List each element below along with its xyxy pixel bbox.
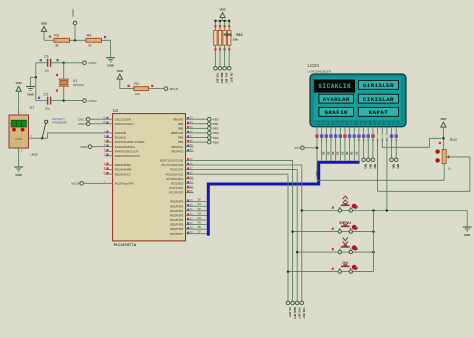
svg-text:U1: U1 bbox=[30, 106, 35, 110]
node OSC2 junction bbox=[62, 99, 64, 102]
wire RD0 to bus, net D0 bbox=[194, 201, 207, 203]
svg-text:RB0: RB0 bbox=[396, 164, 398, 169]
LCD pin 8 stub bbox=[349, 127, 351, 161]
wire RV2 bottom bbox=[443, 164, 445, 181]
node up/col4 bbox=[301, 209, 304, 212]
wire LCD pin1 net to RV2 bottom bbox=[317, 179, 444, 181]
svg-text:RD7/PSP7: RD7/PSP7 bbox=[170, 232, 184, 236]
terminal OSC1 (chip) bbox=[86, 117, 90, 121]
svg-text:RB1: RB1 bbox=[213, 122, 219, 126]
svg-text:RB6/PGC: RB6/PGC bbox=[171, 145, 183, 149]
svg-text:RW: RW bbox=[345, 121, 347, 124]
wire RC0 to button column 2 bbox=[194, 160, 293, 301]
svg-text:R1: R1 bbox=[134, 81, 139, 86]
svg-text:10k: 10k bbox=[135, 92, 140, 96]
voltage probe U1(VOUT) bbox=[42, 124, 45, 138]
svg-text:V=0.852649: V=0.852649 bbox=[52, 121, 67, 125]
svg-text:RB4: RB4 bbox=[213, 136, 219, 140]
pin 22 RD3/PSP3 bbox=[186, 214, 194, 216]
wire buttons common bbox=[373, 211, 375, 272]
pin 36 RB3/PGM bbox=[186, 132, 194, 134]
svg-text:VDD: VDD bbox=[16, 81, 22, 85]
wire RST to LCD pin1 bbox=[304, 147, 317, 149]
svg-text:LGM12641BS1R: LGM12641BS1R bbox=[308, 69, 332, 73]
terminal OSC2 (chip) bbox=[86, 122, 90, 126]
LCD menu item AYARLAR bbox=[319, 94, 354, 103]
pin 10 RE2/AN7/CS bbox=[105, 173, 113, 175]
svg-text:RA3/AN3/VREF+: RA3/AN3/VREF+ bbox=[115, 145, 136, 149]
svg-text:R10: R10 bbox=[236, 33, 242, 37]
svg-text:RB0/INT: RB0/INT bbox=[173, 117, 184, 121]
svg-text:OK_BUT: OK_BUT bbox=[288, 307, 291, 317]
svg-text:RC5/SDO: RC5/SDO bbox=[171, 181, 183, 185]
svg-text:3k: 3k bbox=[55, 43, 59, 47]
wire down-button row bbox=[297, 251, 338, 253]
pin 26 RC7/RX/DT bbox=[186, 191, 194, 193]
pin 16 RC1/T1OSI/CCP2 bbox=[186, 164, 194, 166]
wire caps common bbox=[35, 63, 37, 101]
pin 9 RE1/AN6/WR bbox=[105, 169, 113, 171]
svg-text:YUK_BUT: YUK_BUT bbox=[302, 307, 305, 319]
terminal RB2 (LCD control) bbox=[371, 158, 375, 162]
pin 25 RC6/TX/CK bbox=[186, 187, 194, 189]
svg-text:MCLR: MCLR bbox=[71, 182, 79, 186]
wire RD6 to bus, net D6 bbox=[194, 228, 207, 230]
wire RD3 to bus, net D3 bbox=[194, 214, 207, 216]
resistor R4 bbox=[86, 38, 102, 42]
pin 6 RA4/T0CKI/C1OUT bbox=[105, 150, 113, 152]
resistor R6 (pull-up) bbox=[219, 21, 221, 31]
svg-text:RA4/T0CKI/C1OUT: RA4/T0CKI/C1OUT bbox=[115, 149, 139, 153]
terminal OK_BUT (bottom) bbox=[286, 301, 290, 305]
bus (data D0-D7 to LCD) bbox=[208, 162, 359, 235]
terminal ASG_BUT (bottom) bbox=[295, 301, 299, 305]
node VOUT junction bbox=[41, 137, 44, 140]
svg-text:RA5/AN4/SS/C2OUT: RA5/AN4/SS/C2OUT bbox=[115, 154, 141, 158]
LCD pin 1 stub bbox=[316, 127, 318, 181]
LCD menu item GiRiSLER bbox=[358, 80, 398, 89]
svg-text:VREF: VREF bbox=[80, 145, 88, 149]
wire VDD to R3 node bbox=[43, 31, 45, 40]
terminal MEN_BUT (top) bbox=[218, 67, 222, 71]
wire VREF bbox=[92, 146, 105, 148]
svg-text:U1(VOUT): U1(VOUT) bbox=[52, 117, 65, 121]
LCD pin 17 stub bbox=[391, 127, 393, 158]
svg-text:OK: OK bbox=[342, 260, 348, 265]
wire OK row bbox=[288, 271, 338, 273]
LCD pin 18 stub bbox=[395, 127, 397, 158]
wire OSC1 bbox=[90, 118, 105, 120]
ground (buttons) bbox=[463, 226, 472, 228]
ground (LM35) bbox=[14, 166, 23, 168]
pin 15 RC0/T1OSO/T1CKI bbox=[186, 159, 194, 161]
pin 5 RA3/AN3/VREF+ bbox=[105, 146, 113, 148]
svg-text:OK_BUT: OK_BUT bbox=[229, 73, 231, 83]
svg-text:X1: X1 bbox=[73, 79, 78, 83]
svg-text:VDD: VDD bbox=[41, 21, 47, 25]
pin 34 RB1 bbox=[186, 123, 194, 125]
svg-text:RB2: RB2 bbox=[178, 126, 184, 130]
wire VDD to R1 bbox=[120, 79, 134, 89]
wire VDD to U1 pin1 bbox=[18, 91, 20, 115]
svg-text:OSC1: OSC1 bbox=[88, 61, 97, 65]
ground (crystal caps) bbox=[26, 86, 35, 88]
svg-text:VDD: VDD bbox=[219, 7, 225, 11]
wire R1 to MCLR terminal bbox=[149, 88, 164, 90]
terminal VREF (chip) bbox=[88, 145, 92, 149]
svg-text:GiRiSLER: GiRiSLER bbox=[363, 82, 394, 89]
wire OSC2 bbox=[90, 123, 105, 125]
LCD pin 5 stub bbox=[335, 127, 337, 161]
pin 29 RD6/PSP6 bbox=[186, 228, 194, 230]
wire RD2 to bus, net D2 bbox=[194, 210, 207, 212]
svg-text:RD1/PSP1: RD1/PSP1 bbox=[170, 204, 184, 208]
svg-text:RD6/PSP6: RD6/PSP6 bbox=[170, 227, 184, 231]
svg-text:VDD: VDD bbox=[117, 69, 123, 73]
node menu/col2 bbox=[291, 230, 294, 233]
svg-text:MCLR: MCLR bbox=[170, 87, 180, 91]
svg-text:RC4/SDI/SDA: RC4/SDI/SDA bbox=[166, 177, 183, 181]
blue pin marker R4 right bbox=[104, 36, 106, 38]
wire LCD pin14 V0 to RV2 top bbox=[377, 139, 379, 147]
node up/common bbox=[372, 209, 375, 212]
svg-text:RB1: RB1 bbox=[178, 122, 184, 126]
svg-text:RB4: RB4 bbox=[368, 164, 371, 169]
LCD menu item CIKISLAR bbox=[358, 94, 398, 103]
svg-text:SICAKLIK: SICAKLIK bbox=[318, 83, 351, 90]
svg-text:RST: RST bbox=[294, 146, 300, 150]
LCD pin 2 stub bbox=[321, 127, 323, 161]
node up/LCD16 bbox=[386, 209, 389, 212]
terminal RB3 bbox=[194, 132, 208, 134]
pin 39 RB6/PGC bbox=[186, 146, 194, 148]
LCD pin 15 stub bbox=[381, 127, 383, 148]
resistor R7 (pull-up) bbox=[224, 21, 226, 31]
pin 14 OSC2/CLKOUT bbox=[105, 123, 113, 125]
terminal OSC1 bbox=[83, 61, 87, 65]
svg-text:YUK_BUT: YUK_BUT bbox=[216, 73, 218, 84]
svg-text:VDD: VDD bbox=[440, 117, 446, 121]
LCD pin 6 stub bbox=[339, 127, 341, 161]
LCD pin 9 stub bbox=[353, 127, 355, 161]
svg-text:RD2/PSP2: RD2/PSP2 bbox=[170, 209, 184, 213]
wire U1 pin3 to ground bbox=[18, 148, 20, 167]
pin 18 RC3/SCK/SCL bbox=[186, 173, 194, 175]
pin 8 RE0/AN5/RD bbox=[105, 164, 113, 166]
wire to OSC2 terminal bbox=[64, 100, 83, 102]
svg-text:PIC16F877A: PIC16F877A bbox=[114, 243, 137, 247]
ground (right of R4) bbox=[106, 57, 115, 59]
terminal MCLR (chip) bbox=[80, 182, 84, 186]
svg-text:GND: GND bbox=[27, 92, 33, 96]
pin 20 RD1/PSP1 bbox=[186, 205, 194, 207]
svg-text:RB7/PGD: RB7/PGD bbox=[171, 149, 183, 153]
node OSC1 junction bbox=[62, 62, 64, 65]
wire U1 VOUT bbox=[29, 137, 43, 139]
terminal RB4 (LCD control) bbox=[366, 158, 370, 162]
LCD pin 3 stub bbox=[325, 127, 327, 161]
pin 33 RB0/INT bbox=[186, 118, 194, 120]
svg-text:LCD1: LCD1 bbox=[308, 63, 320, 68]
svg-text:CRYSTAL: CRYSTAL bbox=[73, 84, 85, 87]
svg-text:VCC: VCC bbox=[331, 121, 333, 126]
terminal RB2 bbox=[194, 127, 208, 129]
wire pull-up rail bbox=[215, 20, 229, 22]
svg-text:GND: GND bbox=[107, 64, 113, 68]
pin 28 RD5/PSP5 bbox=[186, 224, 194, 226]
terminal RB0 bbox=[194, 118, 208, 120]
wire VREF to node bbox=[74, 25, 76, 41]
LCD pin 12 stub bbox=[367, 127, 369, 158]
terminal RB1 bbox=[194, 123, 208, 125]
pin 35 RB2 bbox=[186, 127, 194, 129]
pin 13 OSC1/CLKIN bbox=[105, 118, 113, 120]
svg-text:VREF: VREF bbox=[71, 8, 75, 16]
pin 30 RD7/PSP7 bbox=[186, 233, 194, 235]
wire crystal top bbox=[63, 63, 65, 79]
svg-text:OSC2: OSC2 bbox=[88, 99, 97, 103]
svg-text:RB2: RB2 bbox=[373, 164, 375, 169]
svg-text:RC2/CCP1: RC2/CCP1 bbox=[170, 168, 184, 172]
svg-text:10k: 10k bbox=[233, 38, 238, 42]
LCD menu item SICAKLIK (selected) bbox=[314, 79, 355, 92]
resistor R1 bbox=[134, 87, 149, 91]
LCD menu item KAPAT bbox=[358, 107, 398, 116]
LCD pin 10 stub bbox=[358, 127, 360, 161]
pin 23 RC4/SDI/SDA bbox=[186, 178, 194, 180]
svg-text:RD4/PSP4: RD4/PSP4 bbox=[170, 218, 184, 222]
wire VDD to RV2 bbox=[442, 127, 444, 149]
pin 40 RB7/PGD bbox=[186, 150, 194, 152]
LCD pin 4 stub bbox=[330, 127, 332, 161]
terminal RST bbox=[301, 146, 305, 150]
svg-text:R3: R3 bbox=[54, 32, 59, 37]
push button DOWN (asagi) bbox=[343, 238, 348, 241]
push button UP (yukari) bbox=[343, 196, 348, 199]
svg-text:MEN_BUT: MEN_BUT bbox=[293, 307, 296, 319]
svg-text:AYARLAR: AYARLAR bbox=[323, 96, 350, 103]
svg-text:GND: GND bbox=[464, 233, 470, 237]
wire RC3 to button column 1 bbox=[194, 174, 289, 301]
svg-text:GRAFiK: GRAFiK bbox=[325, 109, 348, 116]
pin 21 RD2/PSP2 bbox=[186, 210, 194, 212]
pin 17 RC2/CCP1 bbox=[186, 169, 194, 171]
pin 3 RA1/AN1 bbox=[105, 137, 113, 139]
svg-text:RC1/T1OSI/CCP2: RC1/T1OSI/CCP2 bbox=[161, 163, 183, 167]
terminal RB1 (LCD control) bbox=[390, 158, 394, 162]
node down/col3 bbox=[296, 251, 299, 254]
terminal ASG_BUT (top) bbox=[223, 67, 227, 71]
wire RD1 to bus, net D1 bbox=[194, 205, 207, 207]
svg-text:OSC1/CLKIN: OSC1/CLKIN bbox=[115, 117, 131, 121]
svg-text:OSC2: OSC2 bbox=[78, 122, 86, 126]
svg-text:RB5: RB5 bbox=[178, 140, 184, 144]
LCD pin 7 stub bbox=[344, 127, 346, 161]
svg-text:RC7/RX/DT: RC7/RX/DT bbox=[169, 191, 184, 195]
svg-text:GND: GND bbox=[326, 121, 328, 126]
wire up-button row bbox=[302, 210, 338, 212]
svg-text:CIKISLAR: CIKISLAR bbox=[363, 96, 394, 103]
pin 27 RD4/PSP4 bbox=[186, 219, 194, 221]
wire LCD pin14 net: wiper loop bbox=[378, 157, 470, 191]
svg-text:RB0: RB0 bbox=[213, 118, 219, 122]
terminal YUK_BUT (bottom) bbox=[300, 301, 304, 305]
svg-text:C1: C1 bbox=[44, 53, 49, 58]
svg-text:RC3/SCK/SCL: RC3/SCK/SCL bbox=[166, 172, 184, 176]
svg-text:RC6/TX/CK: RC6/TX/CK bbox=[169, 186, 183, 190]
svg-text:LM35: LM35 bbox=[30, 153, 38, 157]
pin 24 RC5/SDO bbox=[186, 182, 194, 184]
pin 37 RB4 bbox=[186, 137, 194, 139]
LCD pin 11 stub bbox=[363, 127, 365, 158]
svg-text:OSC2/CLKOUT: OSC2/CLKOUT bbox=[115, 122, 134, 126]
wire to R3 left bbox=[44, 39, 54, 41]
pin 4 RA2/AN2/VREF-/CVREF bbox=[105, 141, 113, 143]
svg-text:RB4: RB4 bbox=[178, 136, 184, 140]
wire to ground bbox=[31, 76, 36, 78]
pin 19 RD0/PSP0 bbox=[186, 201, 194, 203]
terminal MCLR (pull-up) bbox=[164, 87, 168, 91]
svg-text:RST: RST bbox=[392, 121, 394, 126]
node VREF junction bbox=[74, 39, 77, 42]
svg-text:RA1/AN1: RA1/AN1 bbox=[115, 136, 127, 140]
LCD pin 14 stub bbox=[377, 127, 379, 192]
svg-text:GND: GND bbox=[15, 173, 21, 177]
svg-text:MEN_BUT: MEN_BUT bbox=[220, 73, 222, 85]
svg-text:RE2/AN7/CS: RE2/AN7/CS bbox=[115, 172, 131, 176]
wire RC1 to button column 4 bbox=[194, 165, 302, 301]
svg-text:RA0/AN0: RA0/AN0 bbox=[115, 131, 127, 135]
wire R3-R4 bbox=[70, 39, 87, 41]
pin 2 RA0/AN0 bbox=[105, 132, 113, 134]
node RST junction bbox=[316, 147, 319, 150]
node RV2 top junction bbox=[442, 137, 445, 140]
svg-text:RB2: RB2 bbox=[213, 127, 219, 131]
LCD pin 16 stub bbox=[386, 127, 388, 211]
terminal YUK_BUT (top) bbox=[214, 67, 218, 71]
LCD menu item GRAFiK bbox=[319, 107, 354, 116]
svg-text:1k: 1k bbox=[88, 43, 92, 47]
svg-text:RD3/PSP3: RD3/PSP3 bbox=[170, 213, 184, 217]
svg-text:RV2: RV2 bbox=[450, 138, 457, 142]
svg-text:22p: 22p bbox=[45, 69, 50, 73]
svg-text:ASG_BUT: ASG_BUT bbox=[225, 73, 228, 85]
LCD pin 13 stub bbox=[372, 127, 374, 158]
svg-text:RA2/AN2/VREF-/CVREF: RA2/AN2/VREF-/CVREF bbox=[115, 140, 145, 144]
svg-text:RD5/PSP5: RD5/PSP5 bbox=[170, 223, 184, 227]
svg-text:KAPAT: KAPAT bbox=[369, 109, 389, 116]
terminal RB4 bbox=[194, 137, 208, 139]
node down/common bbox=[372, 251, 375, 254]
wire RD7 to bus, net D7 bbox=[194, 233, 207, 235]
svg-text:RE1/AN6/WR: RE1/AN6/WR bbox=[115, 168, 131, 172]
svg-text:NC: NC bbox=[396, 121, 398, 125]
node menu/common bbox=[372, 230, 375, 233]
svg-text:VOUT: VOUT bbox=[15, 137, 23, 141]
wire R4 to ground bbox=[102, 40, 111, 57]
svg-text:MENU: MENU bbox=[339, 220, 351, 225]
resistor R5 (pull-up) bbox=[214, 21, 216, 31]
wire common to ground bbox=[466, 211, 468, 227]
svg-text:TMP: TMP bbox=[315, 171, 318, 177]
resistor R3 bbox=[54, 38, 70, 42]
wire RC2 to button column 3 bbox=[194, 170, 298, 301]
wire MENU row bbox=[293, 231, 338, 233]
pin 38 RB5 bbox=[186, 141, 194, 143]
terminal OSC2 bbox=[83, 99, 87, 103]
svg-text:ASG_BUT: ASG_BUT bbox=[297, 307, 300, 319]
wire VOUT to RA0 bbox=[42, 133, 104, 138]
svg-text:OSC1: OSC1 bbox=[78, 117, 86, 121]
red pin marker R3 left bbox=[49, 36, 51, 38]
wire crystal bottom bbox=[63, 87, 65, 101]
terminal RB3 (LCD control) bbox=[362, 158, 366, 162]
node ok/col1 bbox=[287, 270, 290, 273]
wire to OSC1 terminal bbox=[64, 62, 83, 64]
resistor R8 (pull-up) bbox=[228, 21, 230, 31]
svg-text:RD0/PSP0: RD0/PSP0 bbox=[170, 200, 184, 204]
terminal RB5 bbox=[194, 141, 208, 143]
svg-text:RB1: RB1 bbox=[392, 164, 394, 169]
terminal RB0 (LCD control) bbox=[394, 158, 398, 162]
wire RD5 to bus, net D5 bbox=[194, 224, 207, 226]
svg-text:RB3/PGM: RB3/PGM bbox=[171, 131, 184, 135]
node caps-gnd junction bbox=[35, 76, 38, 79]
svg-text:RC0/T1OSO/T1CKI: RC0/T1OSO/T1CKI bbox=[160, 159, 184, 163]
svg-text:R4: R4 bbox=[87, 32, 93, 37]
svg-text:RB3: RB3 bbox=[213, 131, 219, 135]
terminal OK_BUT (top) bbox=[227, 67, 231, 71]
svg-text:MCLR/Vpp/THV: MCLR/Vpp/THV bbox=[115, 181, 134, 185]
terminal MEN_BUT (bottom) bbox=[291, 301, 295, 305]
svg-text:RB5: RB5 bbox=[213, 140, 219, 144]
svg-text:R6: R6 bbox=[228, 33, 232, 37]
pin 1 MCLR/Vpp/THV bbox=[105, 182, 113, 184]
svg-text:RB3: RB3 bbox=[364, 164, 366, 169]
svg-text:U3: U3 bbox=[113, 108, 119, 113]
svg-text:RE0/AN5/RD: RE0/AN5/RD bbox=[115, 163, 131, 167]
pin 7 RA5/AN4/SS/C2OUT bbox=[105, 155, 113, 157]
svg-text:22p: 22p bbox=[45, 106, 50, 110]
svg-text:C2: C2 bbox=[44, 91, 49, 96]
wire MCLR bbox=[84, 182, 105, 184]
wire RD4 to bus, net D4 bbox=[194, 219, 207, 221]
wire RV2 wiper bbox=[449, 156, 470, 158]
